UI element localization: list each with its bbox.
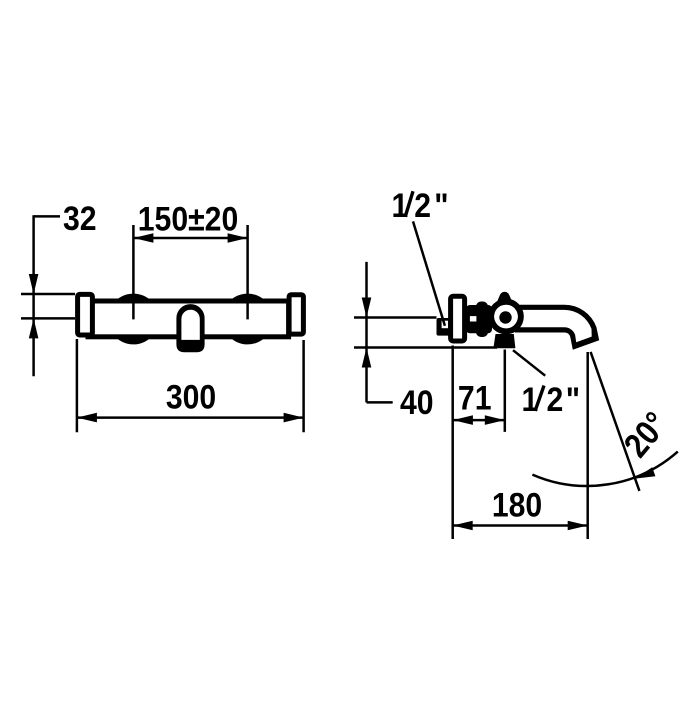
svg-text:1: 1 [522,380,539,418]
svg-text:2: 2 [547,380,564,418]
svg-text:1: 1 [392,186,409,224]
svg-text:300: 300 [166,378,216,416]
svg-text:180: 180 [492,486,542,524]
svg-text:2: 2 [414,186,431,224]
svg-text:": " [434,186,448,224]
svg-text:32: 32 [63,199,97,237]
svg-text:40: 40 [400,383,434,421]
svg-text:150±20: 150±20 [138,200,238,238]
svg-text:": " [566,380,580,418]
svg-text:71: 71 [458,379,492,417]
